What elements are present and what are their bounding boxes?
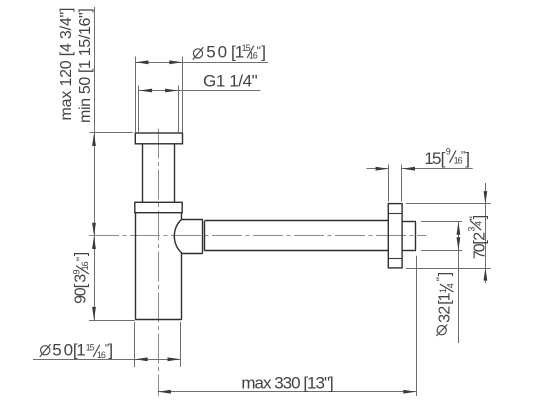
svg-text:70: 70 — [472, 243, 489, 259]
pipe end face — [204, 221, 206, 251]
svg-text:4: 4 — [446, 283, 456, 288]
dimension line d50 top — [135, 62, 268, 64]
wall stub top edge — [402, 221, 416, 223]
inlet pipe left edge — [142, 144, 144, 203]
dimension line d32 — [458, 222, 460, 343]
wall flange — [388, 204, 402, 268]
wall stub end face — [415, 222, 417, 251]
extension line flange top — [90, 132, 133, 134]
label 15 — [424, 146, 470, 168]
top flange — [135, 133, 182, 144]
arrow right max330 — [403, 390, 416, 394]
svg-text:max 120 [4 3/4"]: max 120 [4 3/4"] — [58, 8, 75, 121]
arrow left G1 — [139, 89, 152, 93]
arrow down at body bottom — [92, 307, 96, 320]
body right edge lower — [181, 253, 183, 320]
extension line d50 top left — [135, 57, 137, 133]
arrow right d50 top — [169, 60, 182, 64]
svg-text:2: 2 — [472, 232, 489, 241]
wall flange upper step line — [388, 213, 402, 215]
label d50 top — [193, 42, 266, 61]
elbow joint face — [202, 219, 204, 253]
dimension line G1 1/4 — [139, 90, 260, 92]
extension line d50 bottom right — [180, 322, 182, 367]
svg-text:]: ] — [472, 215, 489, 219]
wall stub bottom edge — [402, 250, 416, 252]
svg-text:": " — [434, 277, 448, 281]
extension line 15 right — [401, 165, 403, 202]
svg-text:min 50 [1 15/16"]: min 50 [1 15/16"] — [77, 9, 94, 123]
svg-text:50: 50 — [206, 42, 229, 61]
label d50 bottom — [40, 340, 113, 360]
svg-text:]: ] — [437, 272, 454, 276]
extension line 15 left — [388, 165, 390, 202]
outlet pipe bottom edge — [205, 250, 389, 252]
label 90 rotated with fraction — [72, 252, 91, 304]
svg-text:15: 15 — [424, 149, 441, 168]
dimension line 70 — [485, 183, 487, 283]
elbow bottom edge — [182, 253, 203, 255]
arrow left d50 top — [136, 60, 149, 64]
svg-text:50: 50 — [52, 340, 75, 359]
body top ring — [135, 202, 182, 212]
label 70 rotated with fraction — [467, 215, 489, 259]
svg-text:3: 3 — [467, 227, 477, 232]
dimension line d50 bottom — [33, 359, 181, 361]
arrow right d50 bottom — [168, 357, 181, 361]
arrow up at pipe centerline — [92, 236, 96, 249]
extension line G1 1/4 right — [178, 86, 180, 133]
svg-text:[: [ — [73, 283, 90, 288]
extension line 70 top — [406, 203, 491, 205]
arrow d32 down — [457, 237, 461, 250]
svg-text:G1 1/4": G1 1/4" — [203, 71, 258, 90]
arrow left d50 bottom — [135, 357, 148, 361]
elbow nose arc — [174, 219, 181, 253]
extension line d32 bottom — [421, 250, 462, 252]
label d32 diameter symbol — [437, 326, 446, 335]
arrow right G1 — [165, 89, 178, 93]
dimension line max330 — [158, 391, 417, 393]
arrow left max330 — [158, 390, 171, 394]
elbow top edge — [182, 219, 203, 221]
svg-text:]: ] — [73, 252, 90, 256]
horizontal centerline of outlet pipe — [89, 235, 427, 237]
arrow down at pipe centerline — [92, 223, 96, 236]
extension line body bottom left — [89, 320, 135, 322]
arrow 70 top pointing down — [484, 191, 488, 204]
svg-text:4: 4 — [473, 221, 483, 226]
label d32 rotated — [434, 272, 455, 323]
inlet pipe right edge — [174, 144, 176, 203]
svg-text:16: 16 — [80, 261, 90, 270]
svg-text:15: 15 — [86, 342, 95, 352]
extension line d32 top — [421, 221, 462, 223]
extension line max330 right — [416, 256, 418, 396]
arrow d32 up — [457, 222, 461, 235]
svg-text:1: 1 — [76, 340, 85, 359]
svg-text:90: 90 — [73, 287, 90, 304]
svg-text:32: 32 — [437, 306, 454, 323]
arrow up at flange top — [92, 133, 96, 146]
outlet pipe top edge — [205, 220, 389, 222]
body right edge upper — [181, 213, 183, 220]
arrow 15 pointing left — [402, 167, 415, 171]
body bottom — [136, 319, 182, 321]
extension line G1 1/4 left — [138, 86, 140, 133]
svg-text:]: ] — [261, 42, 266, 61]
arrow 15 pointing right — [376, 167, 389, 171]
extension line 70 bottom — [406, 268, 491, 270]
svg-text:max 330 [13"]: max 330 [13"] — [241, 374, 333, 393]
vertical centerline of trap body — [158, 129, 160, 397]
svg-text:": " — [74, 257, 88, 261]
svg-text:]: ] — [465, 149, 470, 168]
wall flange lower step line — [388, 258, 402, 260]
dimension line 15 left leader — [367, 168, 389, 170]
dimension line 15 right leader — [402, 168, 473, 170]
body left edge — [135, 213, 137, 320]
svg-text:9: 9 — [446, 146, 451, 156]
extension line d50 bottom left — [134, 322, 136, 367]
dimension max120/min50 + 90 vertical line — [94, 7, 96, 320]
svg-text:]: ] — [108, 340, 113, 359]
extension line d50 top right — [182, 57, 184, 133]
arrow 70 bottom pointing up — [484, 268, 488, 281]
